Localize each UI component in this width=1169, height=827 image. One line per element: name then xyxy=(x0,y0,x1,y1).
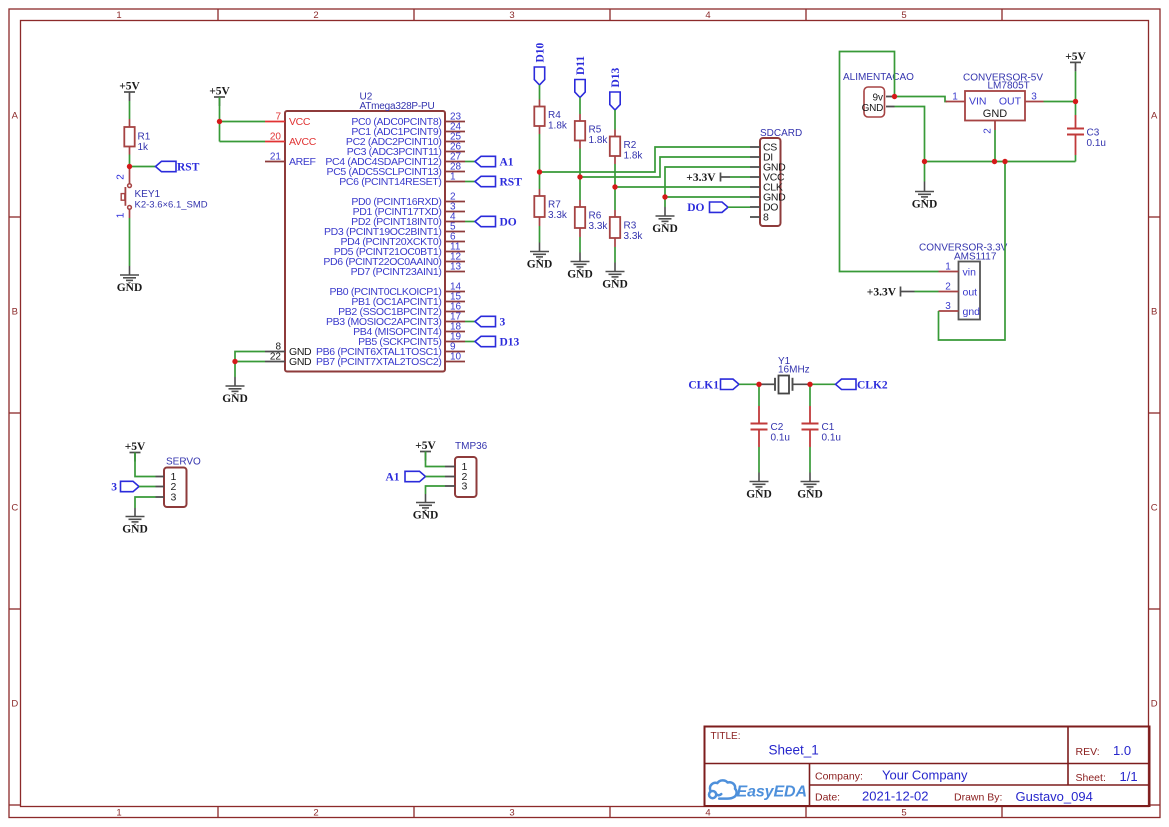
svg-text:PD7 (PCINT23AIN1): PD7 (PCINT23AIN1) xyxy=(351,266,442,278)
svg-text:3: 3 xyxy=(462,481,468,493)
junction SD GND xyxy=(662,194,667,199)
U2 pin 19 xyxy=(445,341,465,343)
TMP36 pin 1 xyxy=(445,466,455,468)
wire pin2 to GND bus xyxy=(994,130,996,162)
U2 pin 24 xyxy=(445,131,465,133)
svg-text:2: 2 xyxy=(983,128,994,134)
svg-text:R4: R4 xyxy=(548,110,561,121)
svg-text:4: 4 xyxy=(705,808,710,819)
svg-text:D13: D13 xyxy=(610,67,622,87)
svg-text:3: 3 xyxy=(171,492,177,504)
svg-text:3: 3 xyxy=(509,808,514,819)
wire 9v GND down xyxy=(895,107,925,162)
svg-text:3.3k: 3.3k xyxy=(589,221,609,232)
svg-text:3: 3 xyxy=(500,317,506,329)
svg-text:20: 20 xyxy=(270,132,282,143)
resistor R3 xyxy=(614,210,616,217)
wire D13 to R2 xyxy=(614,110,616,130)
wire R4 to junction xyxy=(539,134,541,172)
wire gnd loop xyxy=(939,162,1006,341)
U2 pin 12 xyxy=(445,261,465,263)
svg-text:GND: GND xyxy=(567,268,593,280)
svg-text:GND: GND xyxy=(602,278,628,290)
TMP36 pin 3 xyxy=(445,485,455,487)
SERVO pin 3 xyxy=(156,496,165,498)
wire to VCC xyxy=(220,121,266,123)
svg-text:C1: C1 xyxy=(822,422,835,433)
wire pin to flag DO xyxy=(465,221,475,223)
svg-text:+5V: +5V xyxy=(125,441,146,453)
svg-text:Date:: Date: xyxy=(815,792,840,804)
ground (SERVO) xyxy=(126,508,145,525)
wire C1 to GND xyxy=(809,447,811,473)
junction R4/R7 xyxy=(537,169,542,174)
wire DI bus xyxy=(580,157,750,177)
svg-text:R3: R3 xyxy=(624,221,637,232)
svg-text:1k: 1k xyxy=(138,142,150,153)
junction R5/R6 xyxy=(577,174,582,179)
ground (C1) xyxy=(801,473,820,491)
wire R7 to GND xyxy=(539,226,541,243)
SDCARD pin VCC xyxy=(750,176,760,178)
wire 9v to LM7805 VIN xyxy=(895,97,948,102)
power flag +5V (top right) xyxy=(1070,62,1081,71)
wire to CLK2 flag xyxy=(810,383,836,385)
svg-text:SERVO: SERVO xyxy=(166,457,201,468)
svg-text:2: 2 xyxy=(115,174,126,180)
wire CLK1 to node xyxy=(739,383,759,385)
svg-text:3: 3 xyxy=(1031,92,1037,103)
wire flag3 to pin2 xyxy=(139,486,156,488)
svg-text:4: 4 xyxy=(705,10,710,21)
wire R5 to junction xyxy=(579,149,581,178)
net flag RST (U2) xyxy=(475,176,496,186)
ground (C2) xyxy=(750,473,769,491)
C1 bottom lead xyxy=(809,430,811,448)
SERVO pin 2 xyxy=(156,486,165,488)
svg-text:LM7805T: LM7805T xyxy=(988,81,1030,92)
U2 pin 23 xyxy=(445,121,465,123)
ground (TMP36) xyxy=(416,494,435,511)
wire junction to R7 xyxy=(539,172,541,189)
resistor R1 xyxy=(129,119,131,127)
AMS1117 pin 2 xyxy=(939,291,959,293)
TMP36 pin 2 xyxy=(445,476,455,478)
svg-text:GND: GND xyxy=(862,103,883,114)
svg-text:+3.3V: +3.3V xyxy=(867,286,897,298)
junction AMS gnd drop xyxy=(1002,159,1007,164)
wire D11 to R5 xyxy=(579,98,581,115)
svg-text:0.1u: 0.1u xyxy=(822,433,841,444)
LM7805 pin 3 xyxy=(1025,101,1044,103)
capacitor C3 xyxy=(1067,127,1084,129)
wire +5V to OUT node xyxy=(1075,71,1077,101)
svg-text:21: 21 xyxy=(270,152,282,163)
svg-text:2: 2 xyxy=(945,282,951,293)
U2 pin 4 xyxy=(445,221,465,223)
U2 pin 27 xyxy=(445,161,465,163)
op-amp U2 body (ATmega328P-PU) xyxy=(285,111,445,372)
svg-text:2: 2 xyxy=(313,808,318,819)
U2 pin 6 xyxy=(445,241,465,243)
svg-text:B: B xyxy=(1151,306,1157,317)
svg-text:A1: A1 xyxy=(385,472,399,484)
svg-text:gnd: gnd xyxy=(963,306,981,318)
resistor R5 xyxy=(579,114,581,121)
svg-text:VIN: VIN xyxy=(969,96,987,108)
wire +5V down xyxy=(219,97,221,142)
C1 top lead xyxy=(809,406,811,424)
svg-text:PB7 (PCINT7XTAL2TOSC2): PB7 (PCINT7XTAL2TOSC2) xyxy=(316,356,442,368)
svg-text:Gustavo_094: Gustavo_094 xyxy=(1016,789,1093,804)
AMS1117 pin 3 xyxy=(939,310,959,312)
SERVO pin 1 xyxy=(156,476,165,478)
junction XTAL2 xyxy=(807,382,812,387)
U2 pin 16 xyxy=(445,311,465,313)
svg-text:D: D xyxy=(1151,698,1158,709)
U2 pin 1 xyxy=(445,181,465,183)
svg-text:C3: C3 xyxy=(1087,127,1100,138)
wire to AVCC xyxy=(220,141,266,143)
svg-text:D10: D10 xyxy=(535,42,547,62)
svg-text:+5V: +5V xyxy=(415,440,436,452)
svg-text:Sheet:: Sheet: xyxy=(1076,772,1106,784)
wire pin to flag RST xyxy=(465,181,475,183)
svg-text:0.1u: 0.1u xyxy=(1087,138,1106,149)
svg-text:3: 3 xyxy=(111,482,117,494)
wire 9v loop to AMS1117 vin xyxy=(840,52,939,272)
svg-text:TITLE:: TITLE: xyxy=(711,731,741,742)
svg-text:1: 1 xyxy=(945,262,951,273)
U2 pin 28 xyxy=(445,171,465,173)
C3 top lead xyxy=(1075,115,1077,129)
svg-text:GND: GND xyxy=(746,488,772,500)
svg-text:GND: GND xyxy=(797,488,823,500)
svg-text:A: A xyxy=(1151,110,1158,121)
LM7805 pin 2 xyxy=(994,121,996,131)
svg-text:EasyEDA: EasyEDA xyxy=(737,783,807,800)
resistor R7 xyxy=(539,189,541,196)
junction GND bus left xyxy=(922,159,927,164)
svg-text:DO: DO xyxy=(687,202,704,214)
wire +3.3V to VCC xyxy=(730,176,750,178)
wire U2 GND pins xyxy=(235,352,265,362)
svg-text:GND: GND xyxy=(222,393,248,405)
wire +5V to TMP36 pin1 xyxy=(426,452,446,467)
power flag +5V (R1 branch) xyxy=(124,92,135,101)
svg-text:RST: RST xyxy=(177,162,200,174)
crystal Y1 xyxy=(759,383,775,385)
net flag DO (U2) xyxy=(475,216,496,226)
power flag +5V (U2) xyxy=(214,97,225,106)
net flag RST (KEY1) xyxy=(156,161,177,171)
U2 pin 3 xyxy=(445,211,465,213)
wire XTAL1 to C2 xyxy=(758,384,760,406)
svg-text:D: D xyxy=(11,698,18,709)
U2 pin 5 xyxy=(445,231,465,233)
svg-text:5: 5 xyxy=(901,10,906,21)
wire CS bus xyxy=(540,147,751,172)
svg-text:ALIMENTACAO: ALIMENTACAO xyxy=(843,72,914,83)
wire junction to R3 xyxy=(614,187,616,210)
svg-text:PC6 (PCINT14RESET): PC6 (PCINT14RESET) xyxy=(339,176,441,188)
junction +5V/C3 xyxy=(1073,99,1078,104)
wire C3 to GND bus xyxy=(1075,155,1077,162)
svg-text:1.8k: 1.8k xyxy=(548,121,568,132)
wire pin to flag A1 xyxy=(465,161,475,163)
junction XTAL1 xyxy=(756,382,761,387)
svg-text:GND: GND xyxy=(527,258,553,270)
svg-text:1/1: 1/1 xyxy=(1120,769,1138,784)
svg-text:3: 3 xyxy=(509,10,514,21)
net flag CLK2 xyxy=(836,379,857,389)
wire XTAL2 to C1 xyxy=(809,384,811,406)
wire R1 to junction xyxy=(129,155,131,167)
SDCARD pin CLK xyxy=(750,186,760,188)
wire R3 to GND xyxy=(614,247,616,263)
svg-text:AREF: AREF xyxy=(289,156,316,168)
resistor R4 xyxy=(539,100,541,107)
svg-text:GND: GND xyxy=(289,356,312,368)
net flag 3 (U2) xyxy=(475,316,496,326)
wire pin to flag 3 xyxy=(465,321,475,323)
svg-text:9v: 9v xyxy=(872,93,883,104)
U2 pin 10 xyxy=(445,361,465,363)
svg-text:K2-3.6×6.1_SMD: K2-3.6×6.1_SMD xyxy=(135,199,208,210)
svg-text:GND: GND xyxy=(652,223,678,235)
wire R6 to GND xyxy=(579,237,581,253)
net flag A1 (U2) xyxy=(475,156,496,166)
wire OUT to +5V node xyxy=(1044,101,1076,103)
wire pin to flag D13 xyxy=(465,341,475,343)
svg-text:OUT: OUT xyxy=(999,96,1022,108)
svg-text:SDCARD: SDCARD xyxy=(760,128,802,139)
SDCARD pin 8 xyxy=(750,216,760,218)
switch KEY1 xyxy=(129,167,131,184)
U2 pin 14 xyxy=(445,291,465,293)
svg-text:DO: DO xyxy=(500,217,517,229)
svg-text:Drawn By:: Drawn By: xyxy=(954,792,1002,804)
svg-text:16MHz: 16MHz xyxy=(778,365,810,376)
svg-text:+5V: +5V xyxy=(209,86,230,98)
9v GND pin stub xyxy=(886,106,895,108)
svg-text:R2: R2 xyxy=(624,140,637,151)
wire KEY1 to GND xyxy=(129,218,131,266)
junction VCC xyxy=(217,119,222,124)
svg-text:CLK1: CLK1 xyxy=(688,379,719,391)
LM7805 pin 1 xyxy=(946,101,966,103)
wire GND pin6 bus xyxy=(665,196,750,198)
U2 pin 18 xyxy=(445,331,465,333)
svg-text:RST: RST xyxy=(500,177,523,189)
svg-text:+5V: +5V xyxy=(119,81,140,93)
svg-text:+5V: +5V xyxy=(1065,51,1086,63)
junction U2 GND xyxy=(232,359,237,364)
svg-text:2021-12-02: 2021-12-02 xyxy=(862,789,929,804)
wire to ground (regulators) xyxy=(924,162,926,182)
U2 pin 17 xyxy=(445,321,465,323)
junction LM7805 GND xyxy=(992,159,997,164)
svg-text:C2: C2 xyxy=(771,422,784,433)
svg-text:Your Company: Your Company xyxy=(882,768,968,783)
U2 pin 9 xyxy=(445,351,465,353)
C3 bottom lead xyxy=(1075,135,1077,156)
svg-text:GND: GND xyxy=(983,108,1008,120)
title block grid xyxy=(705,727,1150,807)
svg-text:7: 7 xyxy=(275,112,281,123)
U2 pin 22 GND xyxy=(265,361,285,363)
svg-text:1: 1 xyxy=(116,808,121,819)
connector SDCARD body xyxy=(760,138,781,226)
EasyEDA logo xyxy=(709,780,737,798)
resistor R2 xyxy=(614,130,616,137)
net flag D10 (vertical) xyxy=(534,67,544,85)
svg-text:GND: GND xyxy=(912,198,938,210)
wire to ground (U2) xyxy=(234,362,236,378)
svg-text:D13: D13 xyxy=(500,337,520,349)
resistor R6 xyxy=(579,200,581,207)
wire A1 flag to pin2 xyxy=(426,476,446,478)
svg-text:1.8k: 1.8k xyxy=(589,135,609,146)
U2 pin 8 GND xyxy=(265,351,285,353)
wire D10 to R4 xyxy=(539,85,541,100)
connector TMP36 body xyxy=(455,457,477,497)
svg-text:A: A xyxy=(12,110,19,121)
wire SERVO pin3 to GND xyxy=(135,497,156,508)
ground (regulators) xyxy=(915,182,934,201)
svg-text:3.3k: 3.3k xyxy=(624,231,644,242)
svg-text:5: 5 xyxy=(901,808,906,819)
SDCARD pin DO xyxy=(750,206,760,208)
wire DO flag to pin xyxy=(728,206,750,208)
U2 pin 25 xyxy=(445,141,465,143)
svg-text:+3.3V: +3.3V xyxy=(686,172,716,184)
U2 pin 7 VCC xyxy=(265,121,285,123)
svg-text:1: 1 xyxy=(450,172,456,183)
svg-text:Sheet_1: Sheet_1 xyxy=(769,743,819,758)
ground (R6) xyxy=(571,253,590,271)
wire R2 to junction xyxy=(614,164,616,187)
C2 bottom lead xyxy=(758,430,760,448)
power flag +5V (SERVO) xyxy=(130,453,141,462)
svg-text:GND: GND xyxy=(117,282,143,294)
junction node RST xyxy=(127,164,132,169)
battery connector ALIMENTACAO (9v) xyxy=(864,87,885,117)
svg-text:R6: R6 xyxy=(589,211,602,222)
9v pin stub xyxy=(886,96,895,98)
svg-text:0.1u: 0.1u xyxy=(771,433,790,444)
svg-text:GND: GND xyxy=(413,509,439,521)
svg-text:10: 10 xyxy=(450,352,462,363)
net flag D11 (vertical) xyxy=(575,80,585,98)
wire CLK bus xyxy=(615,186,750,188)
svg-text:3: 3 xyxy=(945,301,951,312)
svg-text:TMP36: TMP36 xyxy=(455,441,488,452)
SDCARD pin DI xyxy=(750,156,760,158)
capacitor C1 xyxy=(802,422,819,424)
svg-text:VCC: VCC xyxy=(289,116,311,128)
svg-text:C: C xyxy=(11,502,18,513)
C2 top lead xyxy=(758,406,760,424)
U2 pin 13 xyxy=(445,271,465,273)
net flag D13 (U2) xyxy=(475,336,496,346)
SDCARD pin GND xyxy=(750,166,760,168)
ground (U2) xyxy=(226,377,245,395)
junction R2/R3 xyxy=(612,184,617,189)
wire node to C3 xyxy=(1075,102,1077,116)
U2 pin 15 xyxy=(445,301,465,303)
SDCARD pin GND xyxy=(750,196,760,198)
wire TMP36 pin3 to GND xyxy=(426,486,446,494)
svg-text:C: C xyxy=(1151,502,1158,513)
svg-text:out: out xyxy=(963,287,978,299)
regulator U? LM7805T body xyxy=(965,91,1025,121)
svg-text:1.0: 1.0 xyxy=(1113,743,1131,758)
svg-text:13: 13 xyxy=(450,262,462,273)
svg-text:D11: D11 xyxy=(575,56,587,75)
ground (SDCARD) xyxy=(656,207,675,225)
ground (R3) xyxy=(606,263,625,281)
svg-text:ATmega328P-PU: ATmega328P-PU xyxy=(360,101,435,112)
wire junction to R6 xyxy=(579,177,581,200)
svg-text:GND: GND xyxy=(122,523,148,535)
svg-text:Company:: Company: xyxy=(815,771,863,783)
svg-text:R7: R7 xyxy=(548,200,561,211)
svg-text:B: B xyxy=(12,306,18,317)
svg-text:R5: R5 xyxy=(589,125,602,136)
svg-text:1: 1 xyxy=(116,10,121,21)
svg-text:8: 8 xyxy=(763,212,769,224)
junction 9v out xyxy=(892,94,897,99)
net flag D13 (vertical) xyxy=(610,92,620,110)
wire +3.3V to out xyxy=(915,291,939,293)
svg-text:22: 22 xyxy=(270,352,282,363)
svg-text:AVCC: AVCC xyxy=(289,136,317,148)
U2 pin 2 xyxy=(445,201,465,203)
wire +5V to R1 xyxy=(129,101,131,119)
svg-text:R1: R1 xyxy=(138,132,151,143)
connector SERVO body xyxy=(164,468,187,508)
svg-text:2: 2 xyxy=(313,10,318,21)
svg-text:CLK2: CLK2 xyxy=(857,379,888,391)
AMS1117 pin 1 xyxy=(939,271,959,273)
ground (KEY1) xyxy=(120,266,139,284)
U2 pin 26 xyxy=(445,151,465,153)
svg-text:1.8k: 1.8k xyxy=(624,151,644,162)
regulator AMS1117 body xyxy=(959,262,981,320)
U2 pin 11 xyxy=(445,251,465,253)
wire GND pin3 bus xyxy=(665,167,750,207)
svg-text:1: 1 xyxy=(115,212,126,218)
wire +5V to SERVO pin1 xyxy=(135,453,156,477)
wire C2 to GND xyxy=(758,447,760,473)
power flag +5V (TMP36) xyxy=(420,452,431,461)
capacitor C2 xyxy=(751,422,768,424)
svg-text:1: 1 xyxy=(952,92,958,103)
SDCARD pin CS xyxy=(750,146,760,148)
U2 pin 20 AVCC xyxy=(265,141,285,143)
U2 pin 21 AREF xyxy=(265,161,285,163)
svg-text:REV:: REV: xyxy=(1076,746,1100,758)
svg-text:3.3k: 3.3k xyxy=(548,210,568,221)
svg-text:vin: vin xyxy=(963,267,977,279)
wire junction to RST flag xyxy=(130,166,156,168)
ground (R7) xyxy=(530,243,549,261)
svg-text:A1: A1 xyxy=(500,157,514,169)
wire GND bus xyxy=(925,161,1076,163)
